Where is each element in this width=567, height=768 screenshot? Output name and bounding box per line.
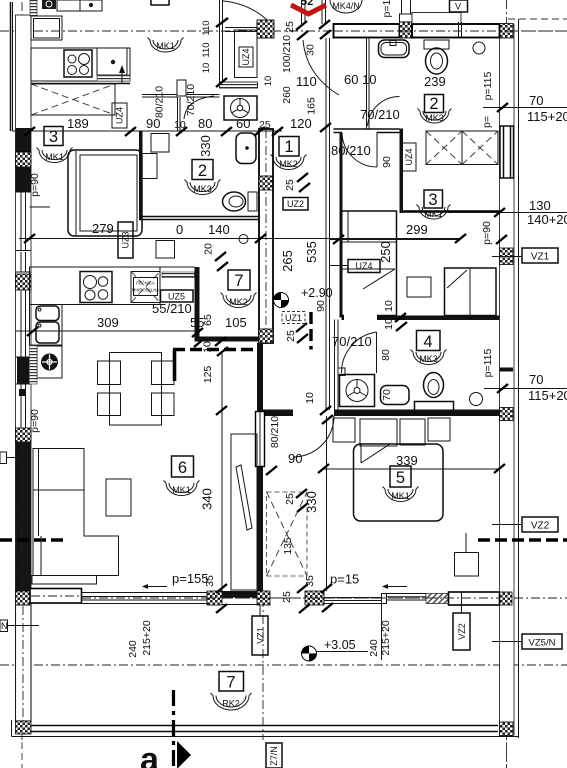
- neighbor-bath wall right seg: [186, 94, 220, 96]
- corridor east wall line2: [329, 38, 331, 410]
- svg-text:10: 10: [304, 392, 316, 404]
- tick room5 25b: [297, 503, 308, 512]
- room5 wardrobe dashed: [267, 492, 308, 576]
- svg-text:25: 25: [284, 179, 296, 191]
- bathL shower square: [151, 134, 169, 153]
- entry jamb left lines: [301, 0, 303, 24]
- tick neighbor door: [216, 18, 228, 27]
- terrace right checker block: [500, 722, 514, 736]
- kitchen niche hatch strip: [162, 272, 195, 278]
- tick hall 25b: [299, 183, 310, 192]
- svg-text:7: 7: [226, 674, 235, 692]
- dim line room5: [324, 468, 500, 470]
- svg-text:1: 1: [284, 138, 293, 156]
- svg-text:MK1: MK1: [391, 491, 410, 501]
- left wall window 2: [16, 252, 32, 272]
- axis dash-dot right wall vertical: [506, 0, 508, 768]
- shaft checker block 2: [259, 329, 273, 343]
- svg-text:70/210: 70/210: [332, 334, 372, 349]
- bath2 wardrobe X: [426, 131, 498, 165]
- room4 toilet: [424, 373, 444, 398]
- terrace RK2 arc: [211, 693, 252, 710]
- neighbor room1 box bottom: [151, 0, 169, 5]
- dim line right mid: [484, 388, 567, 390]
- svg-text:70: 70: [529, 372, 543, 387]
- svg-text:70: 70: [529, 93, 543, 108]
- svg-text:4: 4: [423, 333, 432, 351]
- svg-text:90: 90: [315, 300, 327, 312]
- svg-text:52: 52: [301, 0, 313, 8]
- left wall checker block 4: [16, 591, 32, 605]
- svg-text:25: 25: [284, 21, 296, 33]
- tick right wall window: [496, 235, 507, 244]
- top wall band left part: [334, 24, 400, 38]
- svg-text:80/210: 80/210: [269, 416, 281, 448]
- bath2 washbasin: [379, 40, 410, 58]
- N label west: [0, 620, 8, 632]
- svg-text:70/210: 70/210: [360, 107, 400, 122]
- room5 number box: [390, 466, 411, 487]
- slider door axis overlay: [31, 595, 82, 597]
- tick room5 right: [494, 464, 505, 473]
- neighbor-bath wall left seg: [142, 94, 177, 96]
- tick living door: [266, 466, 277, 475]
- svg-text:MK1: MK1: [172, 485, 191, 495]
- dim line 340 vertical: [221, 352, 223, 591]
- bed5 fold: [360, 444, 362, 463]
- tick uz1 a: [296, 323, 307, 332]
- tick dim row 1: [24, 127, 35, 136]
- svg-text:60 10: 60 10: [344, 72, 377, 87]
- svg-text:7: 7: [234, 272, 243, 290]
- svg-text:115+20: 115+20: [527, 109, 567, 124]
- tick south a: [216, 584, 227, 593]
- kitchenL oven unit: [37, 346, 62, 378]
- tick niche b: [194, 338, 205, 347]
- axis dashed left continuation bottom: [21, 742, 23, 768]
- svg-text:240: 240: [368, 639, 380, 657]
- left exterior wall base: [16, 15, 32, 606]
- neighbor entry sill: [225, 27, 258, 29]
- tick south c: [297, 584, 308, 593]
- room4 washing machine: [340, 375, 375, 407]
- dim line right 130: [448, 212, 567, 214]
- left wall kitchen window: [16, 290, 32, 357]
- svg-text:10: 10: [202, 341, 214, 353]
- dim line top right: [483, 107, 567, 109]
- small label west upper: [0, 452, 7, 464]
- terrace bottom right corner: [496, 736, 519, 738]
- tick mid dim 3: [455, 234, 466, 243]
- UZ4 wall label vertical: [402, 143, 416, 171]
- tick entry right2: [320, 30, 331, 39]
- VZ1 label terrace: [252, 616, 268, 655]
- room6 MK1 arc: [164, 481, 200, 496]
- kitchenL counter band: [30, 267, 161, 305]
- room3L number box: [44, 127, 63, 146]
- svg-text:100/210: 100/210: [281, 35, 293, 73]
- top wall band right part: [412, 24, 500, 38]
- room3L MK1 arc: [37, 148, 73, 163]
- room7L MK2 arc: [221, 293, 257, 308]
- room4 number box: [417, 331, 441, 351]
- room5 wall west part: [263, 410, 293, 417]
- svg-text:UZ2: UZ2: [287, 199, 304, 209]
- svg-text:N: N: [1, 621, 8, 631]
- svg-text:2: 2: [198, 162, 207, 180]
- entry left checker pillar: [257, 20, 274, 38]
- room4 drain: [470, 393, 483, 406]
- bed2 room3: [445, 268, 497, 316]
- axis dash-dot terrace horizontal: [0, 664, 567, 666]
- svg-text:p=90: p=90: [29, 173, 41, 197]
- nightstand leader: [465, 533, 467, 553]
- svg-text:330: 330: [198, 135, 213, 157]
- svg-text:120: 120: [290, 116, 312, 131]
- sliding arrow room5: [388, 586, 407, 588]
- left wall solid segment 4: [16, 442, 32, 591]
- svg-text:140: 140: [208, 222, 230, 237]
- chair TL: [98, 361, 121, 385]
- room6 number box: [172, 456, 194, 477]
- svg-text:309: 309: [97, 315, 119, 330]
- svg-text:RK2: RK2: [222, 699, 240, 709]
- bed1 room3: [342, 211, 397, 316]
- room3L bed: [68, 150, 142, 236]
- svg-text:UZ3: UZ3: [121, 231, 131, 248]
- neighbor door arrow: [121, 70, 123, 84]
- svg-text:265: 265: [280, 250, 295, 272]
- V label box: [450, 0, 468, 12]
- section heavy dash bottom left: [0, 538, 68, 541]
- svg-text:p=: p=: [481, 116, 493, 128]
- neighbor sink2 with dot: [97, 48, 127, 75]
- axis dashed bottom right vertical: [506, 742, 508, 768]
- svg-text:p=115: p=115: [482, 71, 494, 100]
- south sill room5: [324, 598, 382, 604]
- svg-text:260: 260: [281, 86, 293, 104]
- bath2 floor drain: [473, 42, 485, 54]
- room4-5 wall: [334, 410, 500, 417]
- svg-text:35: 35: [304, 575, 316, 587]
- svg-text:25: 25: [284, 493, 296, 505]
- neighbor door arc2: [184, 96, 214, 119]
- room5 west dim line: [326, 416, 328, 591]
- bath2 door arc: [368, 96, 400, 126]
- terrace bottom outer boundary: [12, 736, 519, 738]
- room2L number box: [192, 160, 213, 180]
- level symbol +3.05: [302, 646, 317, 661]
- svg-text:p=15: p=15: [330, 572, 359, 587]
- room4 door leaf: [376, 332, 378, 373]
- level symbol +2.90: [274, 293, 289, 308]
- tick south b: [216, 604, 227, 613]
- room5 headboard cushion1: [333, 418, 355, 442]
- neighbor entry door arc: [223, 1, 272, 25]
- kitchen cabinet square: [156, 241, 175, 259]
- kitchenL ladder strip: [30, 345, 38, 384]
- room5 headboard cushion3: [400, 419, 425, 445]
- section heavy dash vertical mid: [309, 312, 312, 350]
- bath2 toilet: [424, 40, 449, 49]
- dining table: [110, 353, 162, 426]
- svg-text:90: 90: [381, 156, 393, 168]
- room4 MK3 arc: [411, 350, 447, 365]
- room2 number box: [425, 95, 444, 113]
- svg-text:10: 10: [201, 63, 212, 74]
- red entry chevron: [291, 5, 326, 14]
- svg-text:0: 0: [176, 222, 183, 237]
- svg-text:VZ2: VZ2: [531, 521, 550, 532]
- room3 door leaf: [376, 133, 378, 168]
- svg-text:MK2: MK2: [229, 297, 248, 307]
- tick right mid: [497, 384, 508, 393]
- bed headboard shelf line: [30, 206, 51, 208]
- svg-text:70/210: 70/210: [185, 84, 197, 116]
- sliding arrow living: [148, 586, 167, 588]
- bathL door leaf rect: [177, 80, 186, 96]
- long dim line mid: [19, 238, 460, 240]
- terrace left checker block: [16, 721, 32, 734]
- neighbor-bath hatched wall piece: [220, 82, 258, 88]
- south sill hatched: [426, 594, 449, 604]
- svg-text:10: 10: [263, 76, 274, 87]
- room3 north wall: [403, 210, 500, 213]
- svg-text:MK3: MK3: [419, 354, 438, 364]
- left wall window sensor mark: [19, 389, 26, 396]
- left wall solid segment 2: [16, 167, 32, 192]
- terrace left wall band: [16, 605, 32, 721]
- svg-text:MK3: MK3: [425, 113, 444, 123]
- room4 door arc: [341, 332, 376, 373]
- svg-text:UZ4: UZ4: [115, 107, 125, 124]
- section heavy dash horizontal mid: [173, 348, 259, 351]
- entry door arc right unit: [303, 40, 339, 95]
- kitchen niche west wall: [195, 267, 200, 342]
- kitchenL sink counter: [30, 305, 63, 346]
- south wall east band: [449, 592, 500, 605]
- svg-text:279: 279: [92, 221, 114, 236]
- axis dash-dot left wall vertical: [21, 2, 23, 740]
- tick top right dim: [497, 103, 508, 112]
- svg-text:+3.05: +3.05: [324, 638, 356, 652]
- svg-text:30: 30: [305, 44, 317, 56]
- shaft wall between units: [259, 129, 273, 343]
- neighbor hob dark square: [42, 0, 56, 9]
- TV screen diagonal: [236, 465, 252, 530]
- bathL west wall: [139, 131, 143, 220]
- UZ1 dashed label: [282, 312, 305, 324]
- shaft wall axis: [265, 129, 267, 343]
- svg-text:189: 189: [67, 116, 89, 131]
- shaft closet by entry: [235, 30, 258, 78]
- room5 MK1 arc: [383, 487, 419, 502]
- room5 headboard cushion4: [428, 418, 450, 441]
- room2L MK3 arc: [185, 180, 221, 195]
- svg-text:165: 165: [306, 97, 318, 115]
- svg-text:VZ5/N: VZ5/N: [529, 638, 556, 649]
- UZ2 label: [283, 198, 308, 211]
- coffee table: [106, 479, 131, 516]
- svg-text:UZ4: UZ4: [241, 48, 251, 65]
- bath2 east wall: [400, 129, 404, 214]
- room1 MK2 arc: [271, 155, 307, 170]
- svg-text:80/210: 80/210: [154, 86, 166, 118]
- neighbor room1 MK1 arc: [148, 38, 184, 53]
- room5 headboard cushion2: [360, 419, 397, 446]
- svg-text:115+20: 115+20: [528, 388, 567, 403]
- top wall column checker: [400, 22, 413, 38]
- hall-bath wall: [334, 128, 400, 130]
- svg-text:V: V: [455, 2, 461, 12]
- UZ5 label: [161, 290, 194, 302]
- svg-text:p=115: p=115: [482, 348, 494, 377]
- axis dashed top right: [508, 18, 567, 20]
- tick uz1 b: [297, 334, 308, 343]
- section arrow: [177, 741, 191, 768]
- south wall segment dark: [222, 591, 257, 598]
- right exterior wall band: [500, 24, 515, 735]
- kitchen niche south wall: [195, 337, 259, 342]
- tick room3 dim: [333, 235, 344, 244]
- bathL bidet rect: [142, 154, 157, 179]
- left wall checker block 2: [16, 274, 32, 290]
- svg-text:UZ5: UZ5: [168, 292, 185, 302]
- tick entry left: [296, 21, 307, 30]
- tick 130: [494, 208, 505, 217]
- VZ1 label: [522, 248, 558, 263]
- top wall vent divider: [458, 22, 460, 38]
- tick entry right: [319, 20, 330, 29]
- neighbor wardrobe X box: [31, 84, 115, 115]
- room3 west wall: [340, 133, 343, 318]
- svg-text:VZ2: VZ2: [457, 623, 467, 640]
- svg-text:6: 6: [178, 459, 187, 477]
- kitchenL sink bowl2: [36, 322, 59, 343]
- svg-text:p=11: p=11: [381, 0, 393, 17]
- room7L number box: [228, 270, 250, 290]
- TV cabinet: [231, 434, 257, 590]
- sofa sections: [38, 449, 40, 537]
- svg-text:2: 2: [429, 95, 438, 113]
- bathL south wall: [139, 216, 259, 218]
- tick dim row 3: [176, 127, 187, 136]
- junction circle: [239, 235, 248, 244]
- shaft checker block 1: [259, 176, 273, 190]
- tick room34 wall 2: [396, 322, 407, 331]
- svg-text:239: 239: [424, 74, 446, 89]
- kitchenL sink bowl1: [36, 306, 59, 321]
- tick hall-bath wall: [320, 123, 331, 132]
- VZ2 label terrace: [453, 613, 470, 650]
- entry jamb right lines: [321, 0, 323, 24]
- svg-text:240: 240: [127, 640, 139, 658]
- VZ2 label east: [522, 517, 558, 532]
- south sill band living: [82, 593, 208, 604]
- svg-text:215+20: 215+20: [141, 620, 153, 655]
- sofa outline: [33, 449, 119, 576]
- room4 washbasin: [381, 386, 410, 405]
- room4 door opening gap: [344, 315, 377, 322]
- tick niche a: [192, 328, 203, 337]
- chair BR: [152, 393, 175, 416]
- svg-text:535: 535: [304, 241, 319, 263]
- svg-text:299: 299: [406, 222, 428, 237]
- kitchenL stove: [80, 272, 112, 303]
- svg-text:90: 90: [288, 451, 302, 466]
- svg-text:110: 110: [296, 74, 317, 89]
- svg-text:70: 70: [381, 389, 393, 401]
- tick dim row 6: [272, 127, 283, 136]
- svg-text:MK3: MK3: [193, 184, 212, 194]
- svg-text:25: 25: [285, 330, 297, 342]
- svg-text:a: a: [140, 741, 160, 768]
- terrace bottom left corner line: [11, 720, 13, 737]
- chair TR: [152, 361, 175, 385]
- svg-text:MK4/N: MK4/N: [332, 1, 360, 11]
- tick neighbor wall a: [216, 78, 227, 87]
- dim line kitchen: [16, 330, 195, 332]
- tick corridor a: [320, 406, 331, 415]
- tick hall 25a: [297, 173, 308, 182]
- svg-text:80/210: 80/210: [331, 143, 371, 158]
- bed1 fold: [363, 269, 395, 289]
- left wall outer property line top: [10, 2, 12, 131]
- svg-text:MK1: MK1: [156, 41, 175, 51]
- UZ4 left wall label: [112, 103, 127, 128]
- south checker 2: [257, 591, 270, 605]
- VZ5/N label: [522, 634, 562, 649]
- kitchenL oven tower: [131, 272, 160, 303]
- UZ3 label: [118, 222, 133, 258]
- svg-text:130: 130: [529, 198, 551, 213]
- axis dash-dot south doors line: [31, 597, 499, 599]
- left wall window 1: [16, 192, 32, 251]
- svg-text:p=90: p=90: [481, 221, 493, 245]
- svg-text:+2.90: +2.90: [301, 286, 333, 300]
- svg-text:55/210: 55/210: [152, 301, 192, 316]
- tick south d: [299, 604, 310, 613]
- svg-text:80: 80: [198, 116, 212, 131]
- section solid drop: [173, 350, 177, 382]
- svg-text:UZ4: UZ4: [404, 148, 414, 165]
- svg-text:p=90: p=90: [29, 409, 41, 433]
- svg-text:UZ1: UZ1: [285, 313, 302, 323]
- south axis overlay: [207, 597, 499, 599]
- bathL toilet: [248, 192, 257, 211]
- top wall axis redraw: [334, 30, 567, 32]
- room3 door arc: [342, 133, 377, 168]
- room5 double bed: [354, 444, 444, 521]
- svg-text:3: 3: [49, 128, 58, 146]
- svg-text:60: 60: [236, 116, 250, 131]
- svg-text:80: 80: [380, 349, 392, 361]
- svg-text:MK1: MK1: [424, 209, 443, 219]
- svg-text:VZ1: VZ1: [256, 627, 266, 644]
- svg-text:110: 110: [201, 20, 212, 35]
- top wall upper niche band: [412, 13, 461, 24]
- tick 340: [216, 406, 227, 415]
- svg-text:10: 10: [383, 300, 395, 312]
- axis dash-dot south wall right segment: [514, 597, 567, 599]
- right wall checker block south: [500, 592, 513, 605]
- neighbor counter square with dot: [80, 0, 102, 11]
- svg-text:140+20: 140+20: [527, 212, 567, 227]
- tick south f: [322, 603, 333, 612]
- svg-text:340: 340: [200, 488, 215, 510]
- terrace bottom wall outer line: [31, 731, 498, 733]
- terrace left wall axis: [22, 606, 24, 721]
